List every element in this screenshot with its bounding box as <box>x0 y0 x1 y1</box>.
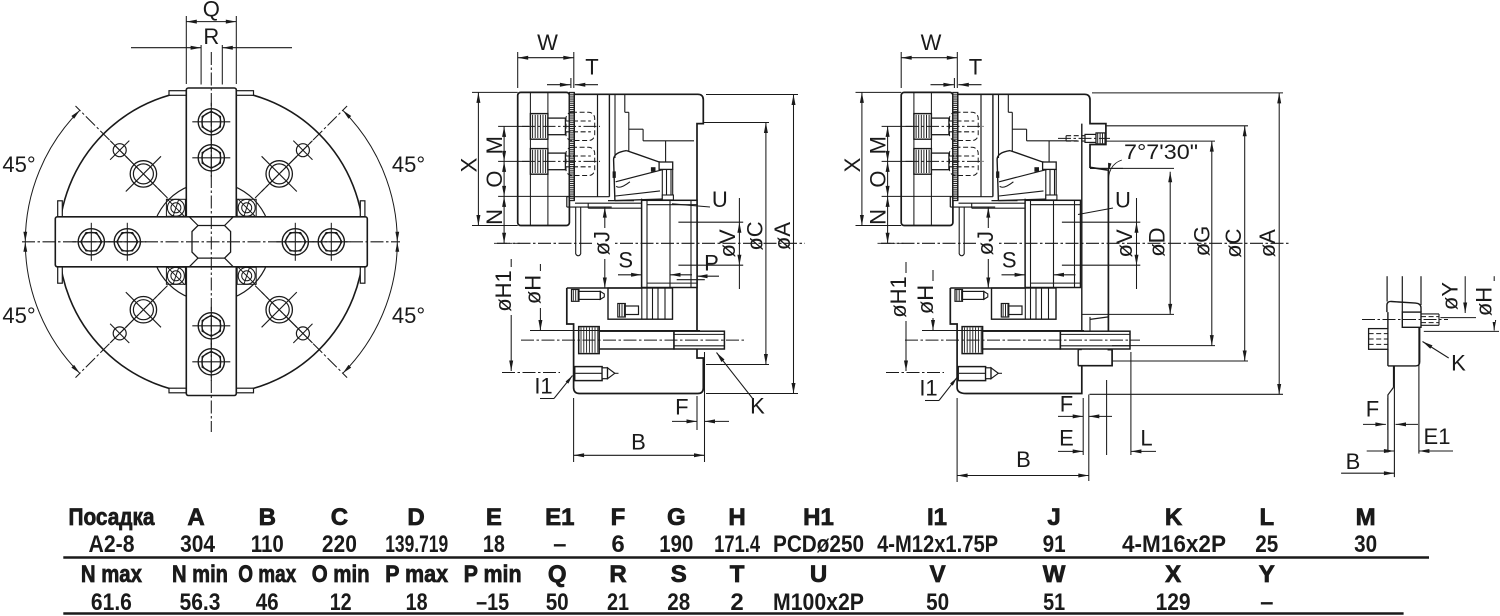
svg-text:Посадка: Посадка <box>69 504 156 531</box>
svg-text:N: N <box>865 209 890 225</box>
svg-text:–: – <box>553 531 566 558</box>
svg-text:Q: Q <box>548 561 567 588</box>
svg-text:L: L <box>1140 425 1152 450</box>
svg-text:X: X <box>1165 561 1181 588</box>
svg-text:øH: øH <box>1471 287 1496 316</box>
svg-text:I1: I1 <box>919 375 937 400</box>
svg-text:W: W <box>537 30 558 55</box>
svg-text:H: H <box>728 504 745 531</box>
svg-text:U: U <box>1115 187 1131 212</box>
svg-text:45°: 45° <box>392 152 425 177</box>
svg-text:E: E <box>486 504 502 531</box>
svg-text:K: K <box>1165 504 1183 531</box>
svg-text:6: 6 <box>611 531 624 558</box>
svg-text:4-M12x1.75P: 4-M12x1.75P <box>877 531 998 558</box>
svg-text:W: W <box>1043 561 1066 588</box>
svg-text:7°7'30": 7°7'30" <box>1124 141 1198 164</box>
svg-text:T: T <box>730 561 745 588</box>
svg-text:A2-8: A2-8 <box>89 531 135 558</box>
svg-text:øY: øY <box>1437 282 1462 310</box>
svg-text:øA: øA <box>1255 229 1280 257</box>
svg-text:M: M <box>482 136 507 154</box>
svg-text:–: – <box>1260 589 1273 616</box>
svg-text:Y: Y <box>1259 561 1275 588</box>
svg-text:50: 50 <box>546 589 569 616</box>
svg-text:B: B <box>1016 447 1031 472</box>
svg-text:øH: øH <box>913 285 938 314</box>
svg-text:R: R <box>203 24 219 49</box>
svg-text:O min: O min <box>312 561 370 588</box>
svg-text:28: 28 <box>667 589 690 616</box>
svg-text:B: B <box>1346 449 1361 474</box>
svg-text:D: D <box>407 504 424 531</box>
svg-text:220: 220 <box>322 531 357 558</box>
svg-text:30: 30 <box>1354 531 1377 558</box>
svg-text:46: 46 <box>256 589 279 616</box>
svg-text:C: C <box>331 504 348 531</box>
svg-text:F: F <box>675 395 688 420</box>
svg-text:B: B <box>259 504 276 531</box>
svg-text:45°: 45° <box>2 303 35 328</box>
svg-text:X: X <box>456 157 481 172</box>
svg-text:øH: øH <box>520 275 545 304</box>
svg-text:21: 21 <box>607 589 629 616</box>
svg-text:F: F <box>1366 396 1379 421</box>
svg-text:P max: P max <box>385 561 449 588</box>
svg-text:N min: N min <box>172 561 228 588</box>
svg-text:2: 2 <box>730 589 743 616</box>
svg-text:T: T <box>969 54 982 79</box>
svg-text:øC: øC <box>742 221 767 250</box>
svg-text:øG: øG <box>1190 226 1215 257</box>
svg-text:M: M <box>865 136 890 154</box>
svg-text:K: K <box>1451 350 1466 375</box>
svg-text:O: O <box>865 170 890 187</box>
svg-text:E1: E1 <box>1424 424 1451 449</box>
svg-text:øV: øV <box>1112 229 1137 257</box>
svg-text:–15: –15 <box>476 589 509 616</box>
svg-text:129: 129 <box>1156 589 1191 616</box>
svg-text:X: X <box>840 157 865 172</box>
svg-text:N max: N max <box>81 561 143 588</box>
svg-text:56.3: 56.3 <box>180 589 221 616</box>
svg-text:B: B <box>631 429 646 454</box>
svg-text:E1: E1 <box>545 504 574 531</box>
svg-text:øA: øA <box>770 222 795 250</box>
svg-text:U: U <box>810 561 827 588</box>
svg-text:E: E <box>1059 425 1074 450</box>
svg-text:øH1: øH1 <box>886 276 911 318</box>
svg-text:PCDø250: PCDø250 <box>773 531 864 558</box>
svg-text:50: 50 <box>926 589 949 616</box>
svg-text:N: N <box>482 209 507 225</box>
svg-text:190: 190 <box>659 531 693 558</box>
svg-text:4-M16x2P: 4-M16x2P <box>1122 531 1226 558</box>
svg-text:P min: P min <box>464 561 522 588</box>
svg-text:18: 18 <box>483 531 505 558</box>
svg-text:12: 12 <box>330 589 352 616</box>
svg-text:18: 18 <box>406 589 428 616</box>
svg-text:I1: I1 <box>534 373 552 398</box>
svg-text:øD: øD <box>1145 227 1170 256</box>
svg-text:O max: O max <box>238 561 297 588</box>
svg-text:O: O <box>482 170 507 187</box>
svg-text:T: T <box>585 54 598 79</box>
svg-text:I1: I1 <box>927 504 947 531</box>
svg-text:øC: øC <box>1221 228 1246 257</box>
svg-text:øJ: øJ <box>973 231 998 255</box>
svg-text:øV: øV <box>715 229 740 257</box>
svg-text:91: 91 <box>1043 531 1066 558</box>
svg-text:G: G <box>667 504 686 531</box>
svg-text:25: 25 <box>1255 531 1278 558</box>
svg-text:M100x2P: M100x2P <box>773 589 864 616</box>
svg-text:304: 304 <box>180 531 216 558</box>
svg-text:139.719: 139.719 <box>385 531 448 558</box>
svg-text:61.6: 61.6 <box>91 589 132 616</box>
svg-text:S: S <box>1002 248 1017 273</box>
svg-text:R: R <box>609 561 626 588</box>
svg-text:L: L <box>1259 504 1274 531</box>
svg-text:W: W <box>921 30 942 55</box>
svg-text:øJ: øJ <box>589 231 614 255</box>
svg-text:45°: 45° <box>392 303 425 328</box>
svg-text:U: U <box>712 187 728 212</box>
svg-text:K: K <box>750 393 765 418</box>
svg-text:øH1: øH1 <box>491 270 516 312</box>
svg-text:J: J <box>1047 504 1060 531</box>
svg-text:110: 110 <box>251 531 284 558</box>
svg-text:F: F <box>1060 391 1073 416</box>
svg-text:S: S <box>618 248 633 273</box>
svg-text:171.4: 171.4 <box>714 531 760 558</box>
svg-text:51: 51 <box>1043 589 1065 616</box>
svg-text:45°: 45° <box>2 152 35 177</box>
svg-text:H1: H1 <box>803 504 834 531</box>
svg-text:F: F <box>611 504 626 531</box>
svg-text:V: V <box>930 561 946 588</box>
svg-text:S: S <box>671 561 687 588</box>
svg-text:M: M <box>1356 504 1376 531</box>
svg-text:Q: Q <box>203 0 220 21</box>
svg-text:A: A <box>187 504 204 531</box>
